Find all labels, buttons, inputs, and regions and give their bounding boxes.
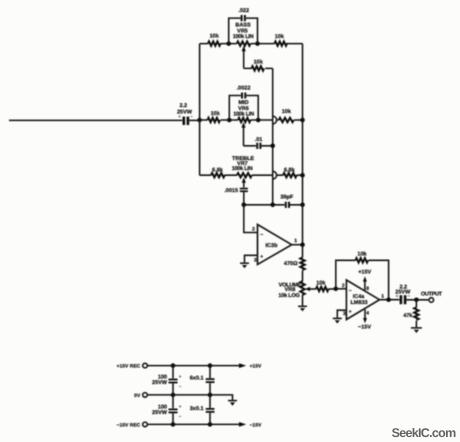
capacitor .0015 <box>224 188 248 195</box>
potentiometer VR7 TREBLE track <box>237 173 252 177</box>
node junction right rail <box>300 203 305 208</box>
svg-text:OUTPUT: OUTPUT <box>421 291 443 297</box>
svg-text:IC4a: IC4a <box>353 294 366 300</box>
ground 0V <box>228 401 237 406</box>
wire mid wiper to cap .01 <box>244 145 273 147</box>
wire IC4a pin3 to ground <box>337 310 346 318</box>
node junction mid row right <box>300 118 305 123</box>
capacitor 100/25VW lower <box>152 395 182 425</box>
wire mid vertical feedback branch <box>272 68 274 204</box>
svg-text:1: 1 <box>294 238 297 244</box>
svg-text:+: + <box>260 254 263 260</box>
wire right rail <box>302 44 304 245</box>
resistor 6.8k treble left <box>211 173 225 177</box>
svg-text:10k: 10k <box>275 34 285 40</box>
wire treble cap to node row <box>243 192 245 205</box>
potentiometer VR6 MID track <box>238 118 251 122</box>
wire IC4a output <box>380 299 400 301</box>
svg-text:2: 2 <box>252 227 255 233</box>
hop mid row over vertical <box>273 116 277 124</box>
node psu <box>208 422 213 427</box>
pin 4 -15V supply <box>358 309 371 330</box>
svg-text:100k LIN: 100k LIN <box>232 166 253 172</box>
svg-text:−: − <box>179 384 182 389</box>
svg-text:−: − <box>260 232 263 238</box>
resistor 10k mid left <box>208 118 221 122</box>
svg-text:3: 3 <box>343 311 346 317</box>
potentiometer VR8 VOLUME track <box>300 281 304 295</box>
svg-text:+: + <box>179 404 182 409</box>
wire left rail <box>199 44 201 176</box>
node psu <box>171 393 176 398</box>
svg-text:+: + <box>349 309 352 315</box>
capacitor .0022 <box>237 86 251 99</box>
svg-text:10k: 10k <box>282 109 292 115</box>
svg-text:3: 3 <box>254 257 257 263</box>
svg-text:+: + <box>179 374 182 379</box>
wire VR8 bottom to ground <box>302 295 304 306</box>
potentiometer VR7 wiper arrow <box>243 181 245 187</box>
svg-text:10k: 10k <box>357 252 367 258</box>
svg-text:IC3b: IC3b <box>266 243 279 249</box>
svg-text:−: − <box>190 114 193 119</box>
wire bass wiper row <box>244 67 273 69</box>
node mid cap junction <box>270 144 275 149</box>
svg-text:10k: 10k <box>254 60 264 66</box>
svg-text:−15V: −15V <box>250 422 262 428</box>
wire volume 10k to pin2 node <box>328 288 335 290</box>
pin 8 +15V supply <box>358 269 371 292</box>
node junction treble <box>242 203 247 208</box>
svg-text:LM833: LM833 <box>350 300 367 306</box>
svg-text:−: − <box>407 293 410 298</box>
node input junction <box>197 118 202 123</box>
capacitor 39pF <box>280 195 293 208</box>
capacitor 3x0.1 <box>190 395 215 425</box>
svg-text:−15V REC: −15V REC <box>117 422 141 428</box>
node IC4a pin2 junction <box>334 287 339 292</box>
resistor 10k bass right <box>275 41 288 45</box>
resistor 47k <box>415 300 417 328</box>
svg-text:+: + <box>396 293 399 298</box>
svg-text:−15V: −15V <box>358 325 371 331</box>
wire pin2 branch to op-amp <box>244 205 258 233</box>
wire cap to output terminal <box>406 299 429 301</box>
wire input line <box>9 119 182 121</box>
svg-text:0V: 0V <box>134 393 141 399</box>
svg-text:25VW: 25VW <box>152 380 168 386</box>
ground IC4a <box>333 318 342 323</box>
svg-text:3x0.1: 3x0.1 <box>190 406 204 412</box>
resistor 10k bass left <box>208 41 221 45</box>
resistor 10k bass wiper <box>252 66 265 70</box>
node output junction <box>414 298 419 303</box>
svg-text:.0015: .0015 <box>224 188 238 194</box>
potentiometer VR6 wiper arrow <box>243 126 245 146</box>
svg-text:.022: .022 <box>238 8 249 14</box>
svg-text:BASS: BASS <box>235 22 251 28</box>
hop treble row over vertical <box>273 171 277 179</box>
resistor 10k mid right <box>279 118 294 122</box>
capacitor .01 <box>255 137 263 149</box>
svg-text:.01: .01 <box>255 137 263 143</box>
capacitor 6x0.1 <box>190 366 215 395</box>
svg-text:4: 4 <box>366 310 369 316</box>
wire node row (virtual earth) <box>244 204 303 206</box>
op-amp U IC3b <box>252 225 297 265</box>
node psu <box>171 363 176 368</box>
svg-text:6.8k: 6.8k <box>212 167 224 173</box>
svg-text:25VW: 25VW <box>152 410 168 416</box>
svg-text:.0022: .0022 <box>237 86 251 92</box>
wire mid cap branch <box>229 96 258 121</box>
potentiometer VR5 BASS track <box>237 41 251 45</box>
wire -15V rail <box>147 423 240 425</box>
capacitor C out 2.2/25VW <box>395 285 411 305</box>
capacitor .022 <box>238 8 249 21</box>
svg-text:47k: 47k <box>403 313 413 319</box>
node junction treble row right <box>300 173 305 178</box>
svg-text:100k LIN: 100k LIN <box>233 111 254 117</box>
resistor 6.8k treble right <box>283 173 297 177</box>
svg-text:+15V REC: +15V REC <box>117 364 141 370</box>
svg-text:470Ω: 470Ω <box>284 261 298 267</box>
potentiometer VR5 wiper arrow <box>243 50 245 69</box>
op-amp U IC4a LM833 <box>342 280 384 320</box>
wire 0V rail <box>147 395 232 400</box>
svg-text:−: − <box>349 288 352 294</box>
svg-text:−: − <box>179 414 182 419</box>
ground 47k <box>411 328 422 333</box>
wire +15V rail <box>147 365 240 367</box>
node junction mid branch <box>270 203 275 208</box>
potentiometer VR8 wiper arrow <box>308 288 316 290</box>
svg-text:6x0.1: 6x0.1 <box>190 376 204 382</box>
wire IC3b output <box>292 244 303 246</box>
capacitor C input 2.2/25VW <box>177 103 193 125</box>
wire treble row <box>200 174 303 176</box>
svg-text:10k: 10k <box>316 280 326 286</box>
node IC3b output junction <box>300 242 305 247</box>
svg-text:100k LIN: 100k LIN <box>233 34 254 40</box>
wire bass row <box>200 43 303 45</box>
wire bass cap branch <box>229 18 258 43</box>
svg-text:2: 2 <box>342 283 345 289</box>
wire IC3b pin3 to ground <box>245 255 258 262</box>
wire mid row left <box>200 119 273 121</box>
resistor 10k feedback <box>356 258 369 262</box>
ground VR8 <box>298 306 307 311</box>
resistor 10k volume wiper <box>316 287 329 291</box>
svg-text:2.2: 2.2 <box>179 103 187 109</box>
svg-text:10k LOG: 10k LOG <box>278 293 299 299</box>
svg-text:39pF: 39pF <box>280 195 293 201</box>
svg-text:+15V: +15V <box>250 364 262 370</box>
node psu <box>208 363 213 368</box>
wire IC4a feedback loop <box>336 260 389 299</box>
resistor 470R <box>302 245 304 282</box>
capacitor 100/25VW upper <box>152 366 182 395</box>
wire cap to input node <box>189 119 199 121</box>
node psu <box>208 393 213 398</box>
svg-text:+: + <box>178 114 181 119</box>
svg-text:1: 1 <box>381 293 384 299</box>
svg-text:10k: 10k <box>211 111 221 117</box>
node IC4a output junction <box>386 297 391 302</box>
terminal OUTPUT <box>429 298 434 303</box>
svg-text:+15V: +15V <box>358 269 371 275</box>
svg-text:10k: 10k <box>210 33 220 39</box>
ground IC3b <box>240 263 249 268</box>
svg-text:SeekIC.com: SeekIC.com <box>392 426 456 440</box>
wire mid row right <box>277 119 303 121</box>
svg-text:6.8k: 6.8k <box>284 168 296 174</box>
wire pin2 to IC4a <box>336 288 347 290</box>
svg-text:8: 8 <box>366 286 369 292</box>
node psu <box>171 422 176 427</box>
